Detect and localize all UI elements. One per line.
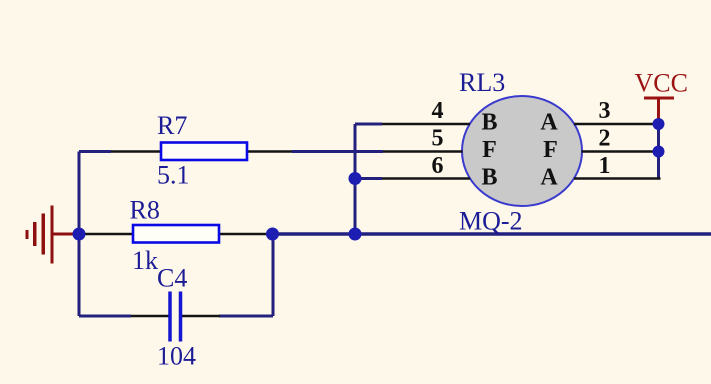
svg-text:F: F <box>543 137 558 163</box>
wire <box>354 124 357 234</box>
pin 2 <box>582 150 659 153</box>
svg-text:1: 1 <box>599 153 611 179</box>
gas sensor U RL3 body <box>462 96 582 206</box>
svg-text:MQ-2: MQ-2 <box>459 207 523 236</box>
svg-text:F: F <box>482 137 497 163</box>
pin 1 <box>574 177 661 180</box>
pin 4 <box>382 123 470 126</box>
wire <box>355 123 382 126</box>
svg-text:5.1: 5.1 <box>157 161 190 190</box>
wire <box>292 150 383 153</box>
wire <box>272 234 275 316</box>
capacitor C4 <box>131 292 220 342</box>
svg-text:6: 6 <box>432 153 444 179</box>
svg-text:B: B <box>481 110 497 136</box>
svg-text:5: 5 <box>432 126 444 152</box>
svg-text:1k: 1k <box>132 246 158 275</box>
wire <box>273 232 711 235</box>
svg-text:4: 4 <box>432 98 444 124</box>
svg-text:VCC: VCC <box>635 69 688 98</box>
wire <box>657 99 660 179</box>
svg-text:A: A <box>540 110 558 136</box>
wire <box>79 150 111 153</box>
junction dot B (R8 / C4) <box>266 228 279 241</box>
junction dot A (ground rail) <box>73 228 86 241</box>
svg-text:3: 3 <box>599 98 611 124</box>
junction dot D (rail / pin branch) <box>349 228 362 241</box>
junction dot F (VCC pin2) <box>653 146 665 158</box>
wire <box>355 177 382 180</box>
svg-text:R7: R7 <box>157 111 187 140</box>
wire <box>79 315 131 318</box>
svg-text:B: B <box>481 165 497 191</box>
svg-text:2: 2 <box>599 126 611 152</box>
svg-text:RL3: RL3 <box>459 68 505 97</box>
pin 6 <box>382 177 470 180</box>
wire <box>219 315 273 318</box>
svg-text:104: 104 <box>157 342 196 371</box>
pin 3 <box>574 123 659 126</box>
junction dot E (VCC pin3) <box>653 118 665 130</box>
resistor R8 <box>84 225 267 243</box>
pin 5 <box>383 150 463 153</box>
ground <box>26 206 74 264</box>
power VCC <box>644 98 674 121</box>
svg-text:R8: R8 <box>130 196 160 225</box>
svg-text:C4: C4 <box>157 264 187 293</box>
resistor R7 <box>111 143 292 161</box>
wire <box>78 152 81 317</box>
junction dot C (pin6 branch) <box>349 172 362 185</box>
svg-text:A: A <box>540 165 558 191</box>
